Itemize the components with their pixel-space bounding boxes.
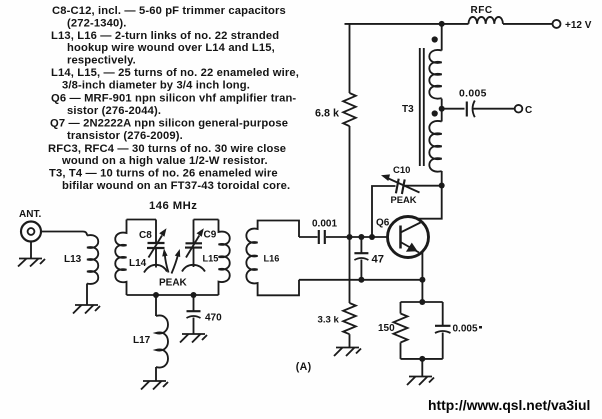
capacitor 0.005 (output) [467, 101, 475, 118]
wire L16 to C 0.001 [299, 236, 318, 238]
svg-text:C8-C12, incl. — 5-60 pF trimme: C8-C12, incl. — 5-60 pF trimmer capacito… [52, 5, 286, 17]
wire tanks bottom rail [127, 294, 219, 296]
wire emitter network bottom rail [401, 358, 443, 360]
svg-text:0.001: 0.001 [312, 219, 337, 230]
svg-text:(A): (A) [296, 361, 312, 373]
node junction emitter/network [419, 299, 425, 305]
ground (ANT jack) [18, 259, 45, 267]
wire left tank top rail [127, 219, 157, 221]
capacitor C9 (trimmer) [182, 220, 205, 272]
node junction C10/base [369, 234, 375, 240]
T3 phase dot lower [432, 110, 438, 116]
connector J1 (antenna jack) [21, 222, 41, 242]
node junction L17 tap [153, 292, 159, 298]
svg-text:3/8-inch diameter by 3/4 inch: 3/8-inch diameter by 3/4 inch long. [62, 79, 250, 91]
svg-text:L16: L16 [264, 254, 280, 264]
node junction emitter/rail [419, 277, 425, 283]
svg-text:transistor (276-2009).: transistor (276-2009). [67, 130, 183, 142]
peak adjust arrow right [172, 249, 181, 274]
inductor L15 [219, 220, 230, 296]
svg-text:L13: L13 [64, 254, 82, 265]
capacitor C10 (trimmer) [372, 174, 442, 237]
wire emitter network top rail [401, 301, 443, 303]
inductor RFC [469, 17, 503, 24]
wire 0.005 to C terminal [473, 108, 515, 110]
node junction 47/rail [358, 277, 364, 283]
T3 phase dot upper [432, 36, 438, 42]
svg-text:0.005: 0.005 [459, 89, 487, 100]
svg-text:L17: L17 [133, 335, 151, 346]
svg-text:T3: T3 [402, 104, 414, 115]
wire tap to 0.005 [442, 108, 465, 110]
capacitor 47 [354, 237, 368, 280]
svg-text:C8: C8 [139, 230, 152, 241]
svg-text:ANT.: ANT. [19, 209, 41, 220]
wire network to ground [421, 359, 423, 376]
transistor Q6 [388, 217, 429, 258]
ground (L13) [73, 305, 100, 314]
svg-text:http://www.qsl.net/va3iul: http://www.qsl.net/va3iul [428, 397, 590, 413]
resistor 150 [394, 302, 408, 359]
svg-text:Q6: Q6 [376, 218, 390, 229]
speck artifact [479, 326, 482, 329]
svg-text:Q6 — MRF-901 npn silicon vhf a: Q6 — MRF-901 npn silicon vhf amplifier t… [51, 93, 296, 105]
svg-text:470: 470 [205, 313, 222, 324]
svg-text:L14, L15, — 25 turns of no. 22: L14, L15, — 25 turns of no. 22 enameled … [51, 67, 299, 79]
wire to L17 [155, 295, 157, 316]
ground (3.3k) [334, 348, 361, 357]
node junction C10/collector [439, 183, 445, 189]
ground (L17) [141, 381, 168, 390]
svg-text:RFC: RFC [471, 5, 493, 16]
terminal C [515, 105, 523, 113]
capacitor C8 (trimmer) [144, 220, 167, 273]
resistor 6.8k [343, 24, 356, 237]
wire +12V rail [345, 23, 469, 25]
node junction rail/T3 [439, 21, 445, 27]
inductor L17 [156, 315, 168, 367]
svg-text:0.005: 0.005 [453, 324, 478, 335]
node junction network/ground [419, 356, 425, 362]
inductor L13 [87, 235, 98, 284]
ground (470) [180, 334, 207, 343]
svg-text:PEAK: PEAK [391, 194, 417, 205]
svg-text:PEAK: PEAK [159, 278, 188, 289]
svg-text:C: C [525, 105, 532, 116]
wire collector to T3 [417, 171, 441, 219]
wire emitter rail [299, 279, 422, 281]
svg-text:(272-1340).: (272-1340). [67, 17, 127, 29]
node junction 47/base [358, 234, 364, 240]
svg-text:6.8 k: 6.8 k [315, 108, 340, 120]
wire RFC to +12V [503, 23, 553, 25]
capacitor 0.005 (emitter) [435, 302, 451, 359]
svg-text:146 MHz: 146 MHz [149, 200, 197, 212]
svg-text:+12 V: +12 V [565, 20, 592, 31]
svg-text:C10: C10 [393, 165, 410, 176]
terminal +12V [553, 20, 561, 28]
wire right tank top rail [194, 219, 219, 221]
svg-text:hookup wire wound over L14 and: hookup wire wound over L14 and L15, [67, 42, 275, 54]
ground (emitter network) [407, 377, 434, 386]
wire base line [326, 236, 388, 238]
wire emitter down [421, 252, 423, 302]
peak adjust arrow left [162, 249, 168, 273]
svg-text:47: 47 [372, 254, 384, 266]
svg-text:C9: C9 [204, 230, 217, 241]
transformer T3 [420, 24, 442, 172]
svg-text:respectively.: respectively. [67, 55, 136, 67]
inductor L16 [246, 221, 299, 296]
svg-text:wound on a high value 1/2-W re: wound on a high value 1/2-W resistor. [61, 155, 268, 167]
svg-text:L14: L14 [129, 258, 147, 269]
inductor L14 [115, 220, 126, 296]
wire ANT jack to ground [30, 242, 32, 258]
resistor 3.3k [343, 237, 356, 347]
wire ANT jack to L13 [41, 232, 87, 236]
svg-text:3.3 k: 3.3 k [318, 314, 340, 325]
svg-text:bifilar wound on an FT37-43 to: bifilar wound on an FT37-43 toroidal cor… [62, 180, 290, 192]
node junction 470 tap [191, 292, 197, 298]
svg-text:150: 150 [378, 323, 395, 334]
capacitor 470 pF [187, 295, 201, 334]
wire L17 to ground [155, 367, 157, 381]
svg-text:sistor (276-2044).: sistor (276-2044). [67, 105, 161, 117]
svg-text:L15: L15 [203, 254, 219, 264]
svg-text:T3, T4 — 10 turns of no. 26 en: T3, T4 — 10 turns of no. 26 enameled wir… [49, 168, 278, 180]
svg-text:RFC3, RFC4 — 30 turns of no. 3: RFC3, RFC4 — 30 turns of no. 30 wire clo… [48, 143, 286, 155]
capacitor 0.001 [319, 230, 325, 244]
svg-text:Q7 — 2N2222A npn silicon gener: Q7 — 2N2222A npn silicon general-purpose [50, 118, 288, 130]
wire L13 to ground [86, 284, 88, 306]
node junction tap [439, 106, 445, 112]
svg-text:L13, L16 — 2-turn links of no.: L13, L16 — 2-turn links of no. 22 strand… [51, 30, 279, 42]
parts list text [48, 5, 299, 192]
node junction 6.8k/base [347, 234, 353, 240]
